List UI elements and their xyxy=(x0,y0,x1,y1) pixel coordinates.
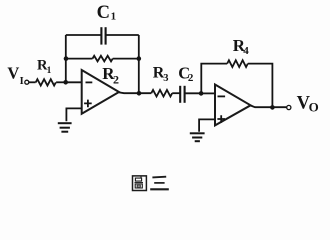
ground G2 xyxy=(190,133,205,141)
wire C2 to node B xyxy=(185,92,201,94)
capacitor C1 xyxy=(101,27,105,44)
wire R2 rail left xyxy=(66,58,93,60)
wire R3 to C2 xyxy=(172,92,180,94)
resistor R4 xyxy=(227,60,248,67)
label R2 xyxy=(102,64,119,87)
node junction dot right of R2 xyxy=(137,56,142,61)
output node junction dot xyxy=(270,105,275,110)
resistor R3 xyxy=(151,90,172,97)
svg-text:1: 1 xyxy=(47,66,52,76)
wire R1 to node A xyxy=(56,81,66,83)
wire op-amp U1 noninverting input to ground xyxy=(66,108,81,121)
wire R2 rail right xyxy=(113,58,139,60)
resistor R2 xyxy=(93,56,113,62)
node C junction dot xyxy=(137,91,142,96)
svg-text:2: 2 xyxy=(113,73,119,87)
wire op-amp U2 output to terminal xyxy=(251,106,287,108)
svg-text:4: 4 xyxy=(243,45,249,57)
output terminal Vo xyxy=(287,105,291,109)
label R1 xyxy=(37,58,52,76)
label R3 xyxy=(153,65,169,85)
wire node B up to R4 rail xyxy=(201,64,227,94)
wire capacitor C1 to right rail xyxy=(106,34,139,36)
node A junction dot xyxy=(63,80,68,85)
label R4 xyxy=(233,36,249,57)
wire right feedback rail down to output node xyxy=(138,35,140,93)
svg-text:I: I xyxy=(20,76,24,87)
node B junction dot xyxy=(199,91,204,96)
label V_I xyxy=(7,64,23,88)
op-amp U2 xyxy=(215,85,251,126)
label V_O xyxy=(297,94,319,115)
label C1 xyxy=(97,3,117,23)
svg-text:3: 3 xyxy=(163,73,168,84)
wire node A up left feedback rail xyxy=(65,35,67,82)
svg-text:O: O xyxy=(309,100,319,115)
resistor R1 xyxy=(36,79,56,85)
input terminal Vi xyxy=(25,80,29,84)
label C2 xyxy=(178,63,194,84)
ground G1 xyxy=(58,123,72,132)
svg-text:2: 2 xyxy=(188,72,194,84)
caption figure three (Chinese) xyxy=(133,176,169,191)
capacitor C2 xyxy=(180,86,184,103)
wire input to R1 xyxy=(29,81,36,83)
op-amp U1 xyxy=(82,70,119,114)
svg-text:C: C xyxy=(97,3,110,23)
wire R4 rail right down to output node xyxy=(248,64,273,108)
wire top rail to capacitor C1 xyxy=(66,34,102,36)
svg-text:1: 1 xyxy=(111,10,117,22)
node junction dot left of R2 xyxy=(64,56,69,61)
wire node B to op-amp U2 inverting input xyxy=(201,92,215,94)
wire op-amp U2 noninverting input to ground xyxy=(199,119,215,131)
svg-text:V: V xyxy=(7,64,19,83)
wire node A to op-amp U1 inverting input xyxy=(66,81,82,83)
wire op-amp U1 output to node C xyxy=(119,91,151,94)
